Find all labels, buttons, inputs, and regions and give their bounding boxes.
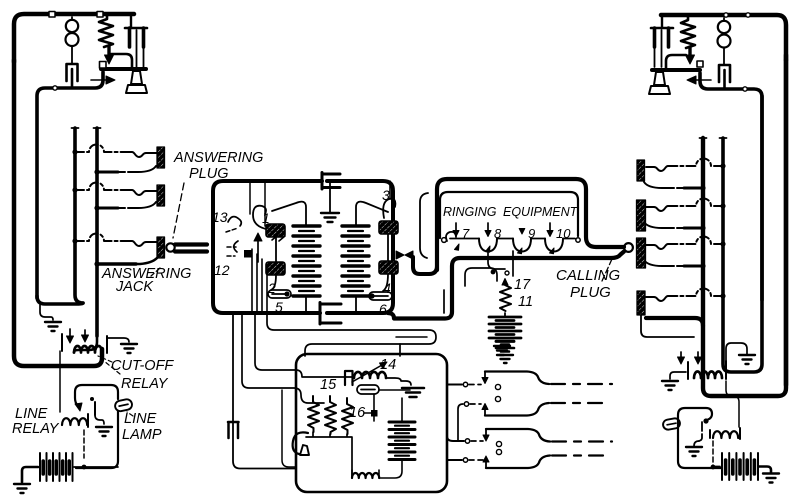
- wire: answering plug pair to cord circuit: [175, 242, 207, 246]
- battery B2 (right stack): [342, 226, 369, 296]
- resistor 17 arrow: [502, 279, 508, 286]
- ringing equipment unit: [396, 179, 633, 355]
- jack R3 tip spring (calling jack): [674, 237, 723, 244]
- jack 1 ring spring: [97, 171, 118, 174]
- stub contacts to ringing keys: [447, 384, 462, 386]
- svg-text:RINGING: RINGING: [443, 205, 497, 219]
- wire: battery to ground right: [759, 467, 771, 473]
- key spring U 1: [479, 239, 497, 252]
- capacitor (condenser) bottom left: [228, 422, 239, 438]
- horn (operator receiver): [293, 432, 308, 454]
- contact marks L L: [272, 235, 285, 241]
- resistor A (zigzag): [308, 396, 319, 432]
- contact arrows cord box to ringing: [396, 251, 404, 259]
- right line lamp loop: [678, 408, 712, 428]
- key 10 label and arrow: [549, 223, 551, 231]
- relay 6 contact pill: [369, 292, 392, 300]
- wire: short drop to lower box: [399, 344, 401, 356]
- jack 1 tip spring (top): [75, 145, 126, 152]
- contact pill in box: [357, 385, 379, 394]
- wire: battery to loop: [712, 466, 720, 468]
- right line relay contact: [699, 422, 702, 441]
- svg-text:17: 17: [514, 277, 531, 293]
- wire: cut-off armature to line relay: [59, 351, 61, 412]
- wire: ringing box outer loop (thick): [437, 179, 624, 270]
- wire: rail drop 3: [255, 315, 352, 377]
- wire: right station outer vertical: [784, 55, 789, 385]
- wire: jack bus A (left): [75, 128, 83, 303]
- line relay coil: [62, 418, 87, 425]
- cut-off relay armature contacts: [61, 334, 63, 351]
- svg-text:PLUG: PLUG: [570, 284, 611, 301]
- receiver left phone: [130, 14, 132, 28]
- wire: relay1-relay2 link: [275, 237, 277, 262]
- ground bottom left: [14, 484, 30, 493]
- stub dashes keys 3-4: [469, 441, 483, 460]
- answering plug ball: [166, 243, 174, 251]
- wire: pill to right: [379, 389, 410, 391]
- svg-text:RELAY: RELAY: [12, 421, 60, 437]
- svg-text:6: 6: [379, 301, 387, 317]
- relay 1 coil (hatched): [266, 224, 285, 237]
- wire: left station left vertical down to bottom turn: [14, 60, 102, 366]
- svg-text:LAMP: LAMP: [122, 427, 162, 443]
- jack R1 plug tip (hatched): [637, 160, 645, 181]
- capacitor C-top in cord box top edge: [322, 173, 340, 190]
- leader cut-off: [98, 356, 120, 374]
- resistor B (zigzag): [325, 396, 336, 434]
- wire: B2 bottom lead: [355, 296, 357, 313]
- jack R4 sleeve wire (thick): [646, 318, 703, 326]
- svg-text:LINE: LINE: [15, 406, 48, 422]
- ground inside right loop: [694, 441, 699, 446]
- leader: jack label: [151, 268, 160, 276]
- armature arrow right loop: [703, 418, 708, 423]
- jack R4 plug tip (hatched): [637, 291, 645, 315]
- leader: plug label to plug: [173, 183, 184, 238]
- key spring U 3: [545, 239, 563, 252]
- right battery (cells): [722, 453, 758, 480]
- svg-text:15: 15: [320, 377, 337, 393]
- transmitter left phone: [101, 67, 146, 71]
- line lamp glyph: [114, 398, 133, 412]
- jack 2 tip spring: [75, 183, 126, 191]
- relay 3 coil (hatched): [379, 221, 398, 234]
- svg-text:12: 12: [214, 262, 230, 278]
- key 7 label and arrow: [455, 223, 457, 231]
- wire: cord box left edge lower: [213, 246, 320, 313]
- wire: stub rail: [396, 336, 427, 338]
- svg-text:LINE: LINE: [124, 411, 157, 427]
- ringing key 3 (step lever): [486, 429, 550, 442]
- hook-switch arrow down right: [688, 47, 691, 57]
- node: connector o right top wire 2: [746, 13, 750, 17]
- wire: contact up to ground: [726, 343, 747, 364]
- jack 3 tip spring (answering jack): [75, 234, 126, 241]
- node: connector o right bottom wire: [743, 87, 747, 91]
- wire: battery leads: [380, 398, 402, 478]
- battery left (cells): [40, 453, 73, 481]
- wire: cord box left+top edge: [213, 181, 322, 250]
- wire: ringing box elbow to cord box contact: [413, 257, 437, 274]
- key contact arrows: [455, 244, 460, 250]
- transmitter right phone: [652, 68, 700, 72]
- ground left of right cut-off relay: [670, 372, 686, 379]
- jack R1 tip spring: [674, 159, 723, 166]
- svg-text:CALLING: CALLING: [556, 267, 621, 284]
- line lamp loop: [75, 385, 118, 406]
- wire: B2 top lead: [356, 202, 388, 226]
- wire: top edge feeds to springs: [250, 183, 265, 226]
- wire: left station loop top: [14, 14, 134, 62]
- line relay armature contact: [90, 397, 94, 401]
- wire: coil to transmitter: [111, 54, 132, 68]
- jack 1 plug tip (hatched): [157, 147, 165, 168]
- relay 2 coil (hatched): [266, 262, 285, 275]
- receiver right phone: [661, 15, 663, 28]
- svg-text:1: 1: [262, 210, 270, 226]
- ringing equipment inner box: [440, 192, 578, 238]
- hook lever contact with arrow: [91, 79, 108, 81]
- battery under resistor 17: [504, 313, 506, 316]
- node: junction square at hook right: [697, 61, 703, 67]
- jack 3 ring spring: [97, 262, 136, 265]
- wire: lamp dash armature: [712, 441, 714, 466]
- battery in lower box: [389, 422, 415, 460]
- wire: relay4 to pill6: [383, 274, 388, 291]
- wire: box feeder vertical: [282, 390, 296, 467]
- stub dashes keys 1-2: [469, 385, 481, 405]
- jack 2 plug tip (hatched): [157, 185, 165, 206]
- wire: coil to transmitter right: [666, 55, 686, 69]
- svg-text:11: 11: [518, 294, 533, 310]
- jack R2 plug tip (hatched): [637, 200, 646, 231]
- svg-text:JACK: JACK: [115, 279, 154, 295]
- relay 5 contact pill: [268, 290, 291, 298]
- ground right in box: [402, 388, 424, 397]
- right line lamp glyph: [662, 418, 680, 431]
- key 8 label and arrow: [487, 223, 489, 231]
- ground above keys: [497, 355, 513, 363]
- capacitor: left phone condenser: [67, 64, 78, 88]
- capacitor C-bot in cord box bottom edge: [320, 303, 341, 325]
- wire: contact to ground: [107, 338, 129, 342]
- right lower: cut-off relay, line relay, line lamp: [662, 343, 779, 483]
- contact C spring: [234, 241, 238, 252]
- battery B1 (left stack): [293, 226, 320, 296]
- node: connector o on top wire: [49, 12, 55, 18]
- ground in cord box: [329, 181, 331, 212]
- svg-text:14: 14: [380, 357, 396, 373]
- right line relay coil: [713, 431, 738, 438]
- wire: relay3-relay4 link: [387, 234, 389, 261]
- relay 4 coil (hatched): [379, 261, 398, 274]
- relay 1 armature loop: [253, 206, 266, 229]
- ringer (two gongs) left phone: [66, 20, 78, 32]
- jack R3 plug tip (hatched): [637, 238, 646, 268]
- wire: R4 tip down lead: [641, 315, 694, 337]
- leader line lamp: [127, 412, 133, 416]
- lower box outline: [296, 354, 447, 492]
- ringing key 1 (step lever): [485, 372, 549, 385]
- contact 15: [345, 371, 353, 385]
- ringer (two gongs) right phone: [718, 21, 730, 33]
- wire: relay2 to pill5: [271, 275, 276, 290]
- ringing keys group: [469, 341, 612, 468]
- wire: rail drop 1 to capacitor: [232, 315, 234, 422]
- battery above keys: [496, 341, 514, 352]
- ground bottom right: [763, 474, 779, 483]
- leader calling plug: [602, 259, 612, 281]
- relay 14 coil: [354, 372, 386, 378]
- svg-text:EQUIPMENT: EQUIPMENT: [503, 205, 579, 219]
- wire: battery to lamp loop: [74, 466, 118, 468]
- wire: rail drop 2: [242, 315, 324, 403]
- wires from cord rails to lower apparatus: [228, 290, 444, 469]
- wire: rail loop right: [267, 315, 436, 356]
- wire: thin drop left of ringing box: [420, 193, 428, 258]
- jack R2 ring spring: [684, 227, 703, 230]
- ground right of cut-off relay: [121, 344, 137, 353]
- wire: B1 bottom lead: [305, 296, 307, 313]
- armature arrow at loop: [75, 403, 82, 411]
- svg-text:3: 3: [382, 187, 390, 203]
- contact curl 13: [228, 217, 241, 226]
- contact arrow up: [257, 240, 259, 262]
- wire: hook down to station bottom wire: [37, 72, 103, 298]
- left jack multiple: [37, 128, 263, 336]
- jack 3 plug tip (hatched): [157, 237, 165, 258]
- jack R1 ring spring: [684, 187, 703, 190]
- node: junction square: [244, 250, 252, 258]
- wire: ringer to condenser right: [723, 18, 725, 64]
- right subscriber telephone set: [649, 13, 786, 385]
- wire: ringing drop to rails: [443, 290, 445, 313]
- wire: cord box top edge right + right edge: [327, 181, 393, 313]
- wire: key to resistor 17: [488, 251, 505, 269]
- lower apparatus box (supervisory relays): [293, 354, 470, 492]
- wire: battery to ground: [22, 467, 38, 482]
- right jack multiple: [637, 60, 787, 396]
- node: connector on bottom wire: [53, 86, 57, 90]
- node: junction square: [371, 410, 378, 417]
- wire: B1 top lead: [272, 202, 306, 226]
- svg-text:13: 13: [212, 209, 228, 225]
- cut-off relay coil: [74, 334, 97, 353]
- right cut-off relay contacts: [687, 362, 689, 379]
- svg-text:RELAY: RELAY: [121, 376, 169, 392]
- node: junction square at hook: [100, 62, 107, 69]
- svg-text:5: 5: [275, 299, 283, 315]
- hook lever contact with arrow right: [694, 79, 711, 81]
- wire contact to ground: [95, 415, 104, 424]
- node: connector o on top wire 2: [97, 12, 103, 18]
- relay 3 armature: [383, 199, 395, 218]
- key spring U 2: [513, 239, 531, 252]
- induction coil left phone (zigzag): [99, 14, 113, 47]
- wire: jack bus B (left): [95, 128, 99, 336]
- small contact box below keys: [465, 268, 497, 286]
- jack 2 ring spring: [97, 207, 118, 210]
- wire: jack bus D (right far): [723, 96, 762, 372]
- jack R4 tip spring: [674, 289, 723, 297]
- left lower: cut-off relay, line relay, line lamp: [12, 305, 174, 493]
- resistor C (zigzag): [342, 398, 353, 434]
- capacitor: right phone condenser: [719, 65, 730, 88]
- left subscriber telephone set: [14, 12, 147, 367]
- calling plug ball: [624, 243, 633, 252]
- wire: ringer to condenser: [71, 17, 73, 63]
- lower box coil (bottom): [352, 473, 379, 478]
- ground at bus join: [40, 305, 53, 320]
- wire: hook down to right bottom wire: [700, 73, 762, 300]
- resistor 17 (zigzag): [500, 285, 511, 311]
- wire: jack bus C (right near): [703, 60, 786, 396]
- hook-switch arrow down: [107, 46, 110, 57]
- ringing key 2 (step lever mirrored): [485, 403, 549, 416]
- induction coil right phone: [681, 15, 695, 48]
- wire: resistor commons: [306, 432, 352, 478]
- wire: pill down to battery: [373, 394, 375, 421]
- wire: right station top: [661, 15, 786, 60]
- ground under resistor 17: [494, 346, 510, 355]
- ground above right: [739, 355, 755, 364]
- jack R3 ring spring: [684, 265, 703, 268]
- wire: tip rail to calling plug (thick): [388, 252, 624, 319]
- wire: bus join U-turn at bottom: [37, 296, 83, 304]
- cord circuit (repeating-coil) box: [212, 173, 624, 325]
- svg-text:ANSWERING: ANSWERING: [173, 150, 263, 166]
- wire: right cut-off armature to line relay: [726, 381, 739, 427]
- key 9 label and arrow: [519, 229, 525, 235]
- right cut-off relay coil: [694, 372, 722, 379]
- svg-text:CUT-OFF: CUT-OFF: [111, 358, 174, 374]
- ringing key contact row: [442, 238, 447, 243]
- ground under line relay contact: [96, 427, 112, 436]
- jack R2 tip spring: [674, 199, 723, 207]
- node: connector o right top wire: [724, 13, 728, 17]
- ringing key 4 (step lever mirrored): [486, 456, 550, 469]
- wire: relay 14 leads: [386, 378, 411, 385]
- wire: spring leads down through box: [251, 249, 253, 313]
- node: small circle inner box end: [576, 238, 580, 242]
